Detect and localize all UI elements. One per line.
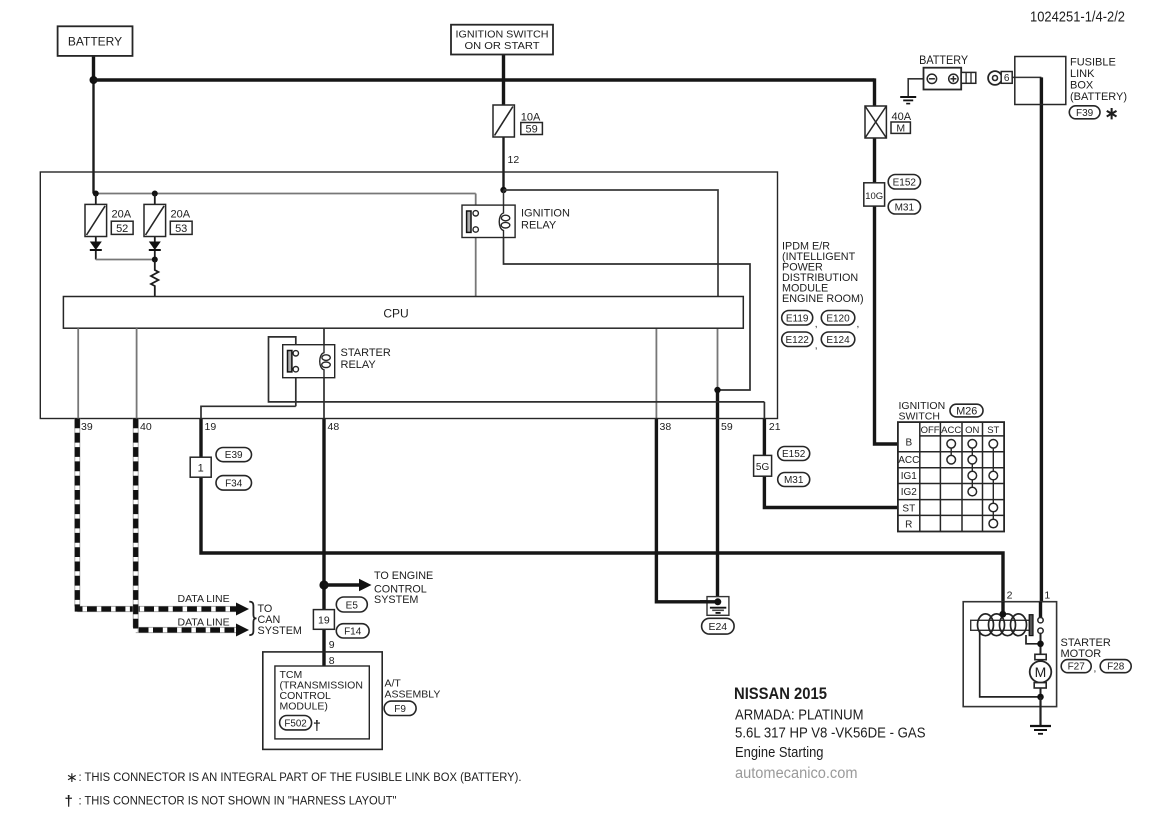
ignition switch table — [898, 422, 1004, 531]
svg-text:19: 19 — [205, 421, 217, 433]
text TCM module — [280, 669, 363, 713]
svg-text:59: 59 — [525, 123, 537, 135]
footnote dagger — [65, 793, 397, 810]
svg-text:48: 48 — [328, 421, 340, 433]
svg-text:E152: E152 — [782, 449, 806, 460]
connector E122 — [782, 332, 818, 352]
wire: ignition switch feed — [502, 55, 505, 192]
svg-text:NISSAN 2015: NISSAN 2015 — [734, 685, 827, 703]
svg-text:,: , — [1094, 664, 1097, 675]
svg-text:20A: 20A — [112, 209, 132, 221]
motor M — [1030, 654, 1052, 688]
svg-text:∗: ∗ — [66, 769, 78, 785]
wire: ignition relay coil feed — [503, 190, 505, 206]
wire: contact bar lead — [1026, 635, 1041, 644]
wire: pin48 to TCM — [322, 419, 325, 667]
wire: pin19 to starter solenoid run — [201, 419, 1003, 615]
svg-text:9: 9 — [329, 639, 335, 651]
wire: starter relay coil feed — [323, 328, 325, 345]
svg-text:39: 39 — [81, 421, 93, 433]
connector F28 — [1100, 660, 1131, 673]
label fuse 53 — [170, 209, 192, 235]
svg-text:IG1: IG1 — [901, 471, 918, 482]
battery symbol top right — [908, 55, 976, 96]
ground at starter motor — [1030, 726, 1051, 734]
wire: battery feed down — [92, 56, 95, 194]
diode D2 — [149, 242, 161, 251]
wire: pin59 ground run — [716, 390, 719, 602]
node: solenoid feed junction — [999, 611, 1006, 618]
svg-text:RELAY: RELAY — [341, 359, 377, 371]
wire: CPU pin40 internal — [136, 328, 138, 418]
connector E152 upper — [888, 175, 920, 190]
svg-text:FUSIBLE: FUSIBLE — [1070, 57, 1116, 69]
svg-text:52: 52 — [116, 223, 128, 235]
svg-text:38: 38 — [660, 421, 672, 433]
wire: starter relay coil out to pin48 — [323, 378, 325, 419]
svg-text:F34: F34 — [225, 479, 243, 490]
svg-text:SYSTEM: SYSTEM — [258, 625, 302, 637]
text TO CAN SYSTEM — [258, 603, 302, 637]
label ignition relay — [521, 208, 570, 232]
connector 5G — [754, 455, 772, 476]
wire: 40A fusible link feed — [875, 78, 899, 444]
svg-text:1: 1 — [198, 463, 204, 475]
dashed data line pin39 — [75, 419, 249, 616]
node: bus fuse 52 junction — [93, 191, 99, 197]
IPDM E/R box — [40, 172, 777, 419]
svg-text:DATA LINE: DATA LINE — [178, 617, 230, 629]
wire: ignition relay contact out to CPU — [475, 232, 477, 297]
connector E119 — [782, 311, 818, 331]
footnote asterisk — [66, 769, 522, 785]
svg-text:1024251-1/4-2/2: 1024251-1/4-2/2 — [1030, 9, 1125, 26]
svg-text:MODULE): MODULE) — [280, 701, 328, 713]
text FUSIBLE LINK BOX (BATTERY) — [1070, 57, 1127, 104]
svg-text:SYSTEM: SYSTEM — [374, 594, 418, 606]
wire: CPU pin59 internal — [717, 328, 719, 390]
svg-text:E5: E5 — [346, 600, 359, 611]
svg-text:E124: E124 — [826, 335, 850, 346]
svg-text:E39: E39 — [225, 450, 243, 461]
resistor R1 — [151, 260, 158, 297]
wire: motor to ground node — [1040, 688, 1042, 697]
connector M31 upper — [888, 200, 920, 215]
diode D1 — [90, 242, 102, 251]
wire: IPDM internal supply bus — [94, 193, 476, 195]
svg-text:19: 19 — [318, 615, 330, 627]
node: TCM branch junction — [319, 580, 328, 589]
svg-text:ON: ON — [965, 425, 979, 436]
svg-text:,: , — [815, 319, 818, 330]
node: diode join junction — [152, 257, 158, 263]
connector 19 box — [313, 610, 334, 630]
relay U2 starter relay — [283, 345, 335, 378]
label fuse 52 — [111, 209, 133, 235]
connector E39 — [216, 448, 252, 462]
BATTERY box top-left — [58, 26, 133, 56]
svg-text:6: 6 — [1004, 73, 1010, 84]
svg-text:8: 8 — [329, 655, 335, 667]
wire: pin12 branch to CPU — [504, 190, 719, 297]
fusible link box — [1015, 57, 1066, 105]
svg-text:LINK: LINK — [1070, 68, 1095, 80]
svg-text:DATA LINE: DATA LINE — [178, 593, 230, 605]
connector 10G — [864, 183, 885, 206]
ground E24 box — [700, 597, 729, 616]
svg-text:: THIS CONNECTOR IS NOT SHOWN: : THIS CONNECTOR IS NOT SHOWN IN "HARNES… — [79, 796, 397, 808]
brace to CAN system — [249, 602, 256, 636]
node: pin12 junction — [500, 187, 506, 193]
svg-text:ASSEMBLY: ASSEMBLY — [385, 689, 441, 701]
svg-text:ST: ST — [902, 503, 915, 514]
svg-text:12: 12 — [508, 154, 520, 166]
svg-text:10A: 10A — [521, 112, 541, 124]
table row labels — [898, 438, 919, 531]
svg-text:F27: F27 — [1068, 662, 1086, 673]
svg-text:F502: F502 — [284, 718, 306, 729]
svg-text:BOX: BOX — [1070, 80, 1094, 92]
connector E152 lower — [778, 447, 810, 461]
svg-text:ST: ST — [987, 425, 999, 436]
svg-text:E152: E152 — [893, 177, 917, 188]
svg-text:5G: 5G — [756, 462, 770, 473]
connector M31 lower — [778, 473, 810, 487]
wire: ignition relay contact feed — [475, 194, 477, 212]
svg-text:(BATTERY): (BATTERY) — [1070, 91, 1127, 103]
svg-text:ACC: ACC — [898, 455, 919, 466]
svg-text:59: 59 — [721, 421, 733, 433]
IGNITION SWITCH ON OR START box — [451, 25, 553, 55]
svg-text:ENGINE ROOM): ENGINE ROOM) — [782, 293, 864, 305]
svg-text:automecanico.com: automecanico.com — [735, 765, 858, 782]
svg-text:TO ENGINE: TO ENGINE — [374, 570, 433, 582]
arrow to engine control system — [324, 579, 372, 591]
connector ring 6 — [988, 71, 1012, 85]
connector F9 — [384, 701, 416, 715]
label 40A M — [891, 111, 912, 134]
node: battery bus junction — [90, 76, 98, 84]
svg-text:SWITCH: SWITCH — [899, 411, 940, 423]
svg-text:B: B — [905, 438, 912, 449]
wire: fuse 52 leads — [95, 194, 97, 260]
svg-text:F14: F14 — [344, 627, 362, 638]
svg-text:53: 53 — [175, 223, 187, 235]
svg-text:M26: M26 — [956, 406, 977, 418]
svg-text:IGNITION: IGNITION — [521, 208, 570, 220]
wire: diode outputs join — [96, 259, 155, 261]
text IGNITION SWITCH label — [899, 400, 946, 423]
svg-text:STARTER: STARTER — [341, 347, 391, 359]
table contact circles — [947, 440, 998, 528]
svg-text:M: M — [1035, 664, 1047, 680]
connector E24 — [702, 618, 735, 634]
text A/T ASSEMBLY — [385, 678, 441, 701]
TCM box — [275, 666, 369, 739]
svg-text:RELAY: RELAY — [521, 220, 557, 232]
wire: starter ground lead — [1039, 697, 1041, 726]
connector F27 — [1061, 660, 1096, 675]
svg-text:21: 21 — [769, 421, 781, 433]
text NISSAN 2015 block — [734, 685, 926, 782]
svg-text:F9: F9 — [394, 704, 406, 715]
node: coil/pin59 junction — [714, 387, 720, 393]
wire: ignition relay coil out — [504, 238, 751, 391]
text TO ENGINE CONTROL SYSTEM — [374, 570, 433, 606]
connector F34 — [216, 476, 252, 491]
table header texts — [921, 425, 1000, 436]
svg-text:M31: M31 — [784, 475, 804, 486]
wire: pin2 into solenoid — [1001, 602, 1004, 615]
svg-text:∗: ∗ — [1105, 104, 1119, 123]
wire: fusible link box battery feed — [1012, 77, 1041, 617]
svg-text:5.6L 317 HP V8 -VK56DE - GAS: 5.6L 317 HP V8 -VK56DE - GAS — [735, 725, 926, 742]
svg-text:20A: 20A — [171, 209, 191, 221]
svg-text:†: † — [313, 717, 321, 733]
svg-text:F39: F39 — [1076, 108, 1094, 119]
table contact lines — [951, 444, 993, 524]
svg-text:,: , — [857, 319, 860, 330]
svg-text:40: 40 — [140, 421, 152, 433]
svg-text:E119: E119 — [786, 313, 809, 324]
wire: pin1 into contact — [1039, 602, 1042, 618]
node: motor feed junction — [1037, 641, 1044, 648]
connector M26 — [950, 404, 983, 417]
wire: contact to motor — [1040, 633, 1042, 654]
wire: main battery bus — [94, 78, 875, 81]
connector E120 — [821, 311, 859, 331]
wire: pin38 ground run — [656, 328, 716, 602]
starter contact bar — [1029, 615, 1033, 636]
label fuse 10A 59 — [521, 112, 543, 136]
svg-text:MOTOR: MOTOR — [1061, 648, 1102, 660]
wire: solenoid return — [980, 630, 1041, 697]
svg-text:IGNITION SWITCH: IGNITION SWITCH — [456, 29, 549, 41]
starter solenoid coil — [971, 614, 1030, 636]
node: starter ground junction — [1037, 694, 1044, 701]
svg-text:,: , — [815, 341, 818, 352]
fuse 20A 53 — [144, 204, 166, 236]
dashed data line pin40 — [133, 419, 249, 637]
wire: fuse 53 leads — [154, 194, 156, 260]
svg-text:40A: 40A — [892, 111, 912, 123]
fuse 10A 59 — [493, 105, 514, 137]
wire: starter relay contact top to pin21 — [269, 337, 765, 402]
svg-text:ON OR START: ON OR START — [465, 40, 541, 52]
node: bus fuse 53 junction — [152, 191, 158, 197]
svg-text:Engine Starting: Engine Starting — [735, 744, 824, 761]
svg-text:E122: E122 — [786, 335, 810, 346]
svg-text:E24: E24 — [708, 621, 727, 633]
svg-text:2: 2 — [1007, 590, 1013, 602]
svg-text:ARMADA: PLATINUM: ARMADA: PLATINUM — [735, 706, 864, 723]
starter motor box — [963, 602, 1056, 707]
svg-text:CPU: CPU — [383, 307, 408, 321]
svg-text:M: M — [896, 122, 905, 134]
svg-text:1: 1 — [1044, 590, 1050, 602]
fusible link 40A M — [865, 106, 886, 138]
CPU box — [63, 297, 743, 329]
svg-text:M31: M31 — [895, 202, 915, 213]
wire: pin21 to ignition switch ST — [764, 402, 898, 508]
connector E124 — [821, 332, 855, 347]
svg-text:: THIS CONNECTOR IS AN INTEGRA: : THIS CONNECTOR IS AN INTEGRAL PART OF … — [79, 772, 522, 784]
connector F502 with dagger — [280, 716, 321, 734]
wire: starter relay contact bottom to pin19 — [201, 372, 296, 419]
svg-text:ACC: ACC — [941, 425, 961, 436]
svg-text:IG2: IG2 — [901, 487, 918, 498]
svg-text:E120: E120 — [826, 313, 850, 324]
svg-text:BATTERY: BATTERY — [919, 55, 968, 67]
A/T assembly box — [263, 652, 382, 750]
text STARTER MOTOR — [1061, 637, 1111, 660]
svg-text:R: R — [905, 519, 912, 530]
starter contact circles — [1038, 618, 1043, 634]
connector F14 — [336, 624, 369, 638]
label starter relay — [341, 347, 391, 371]
svg-text:OFF: OFF — [921, 425, 940, 436]
connector 1 E39 F34 — [190, 457, 211, 477]
relay U1 ignition relay — [462, 205, 515, 237]
wire: CPU pin39 internal — [77, 328, 79, 418]
svg-text:BATTERY: BATTERY — [68, 35, 122, 49]
fuse 20A 52 — [85, 204, 107, 236]
svg-text:10G: 10G — [865, 191, 883, 202]
connector E5 — [336, 597, 367, 612]
svg-text:†: † — [65, 793, 73, 810]
connector F39 with asterisk — [1069, 104, 1118, 123]
svg-text:F28: F28 — [1107, 662, 1125, 673]
ground at battery — [900, 97, 916, 104]
text IPDM E/R description — [782, 241, 864, 306]
